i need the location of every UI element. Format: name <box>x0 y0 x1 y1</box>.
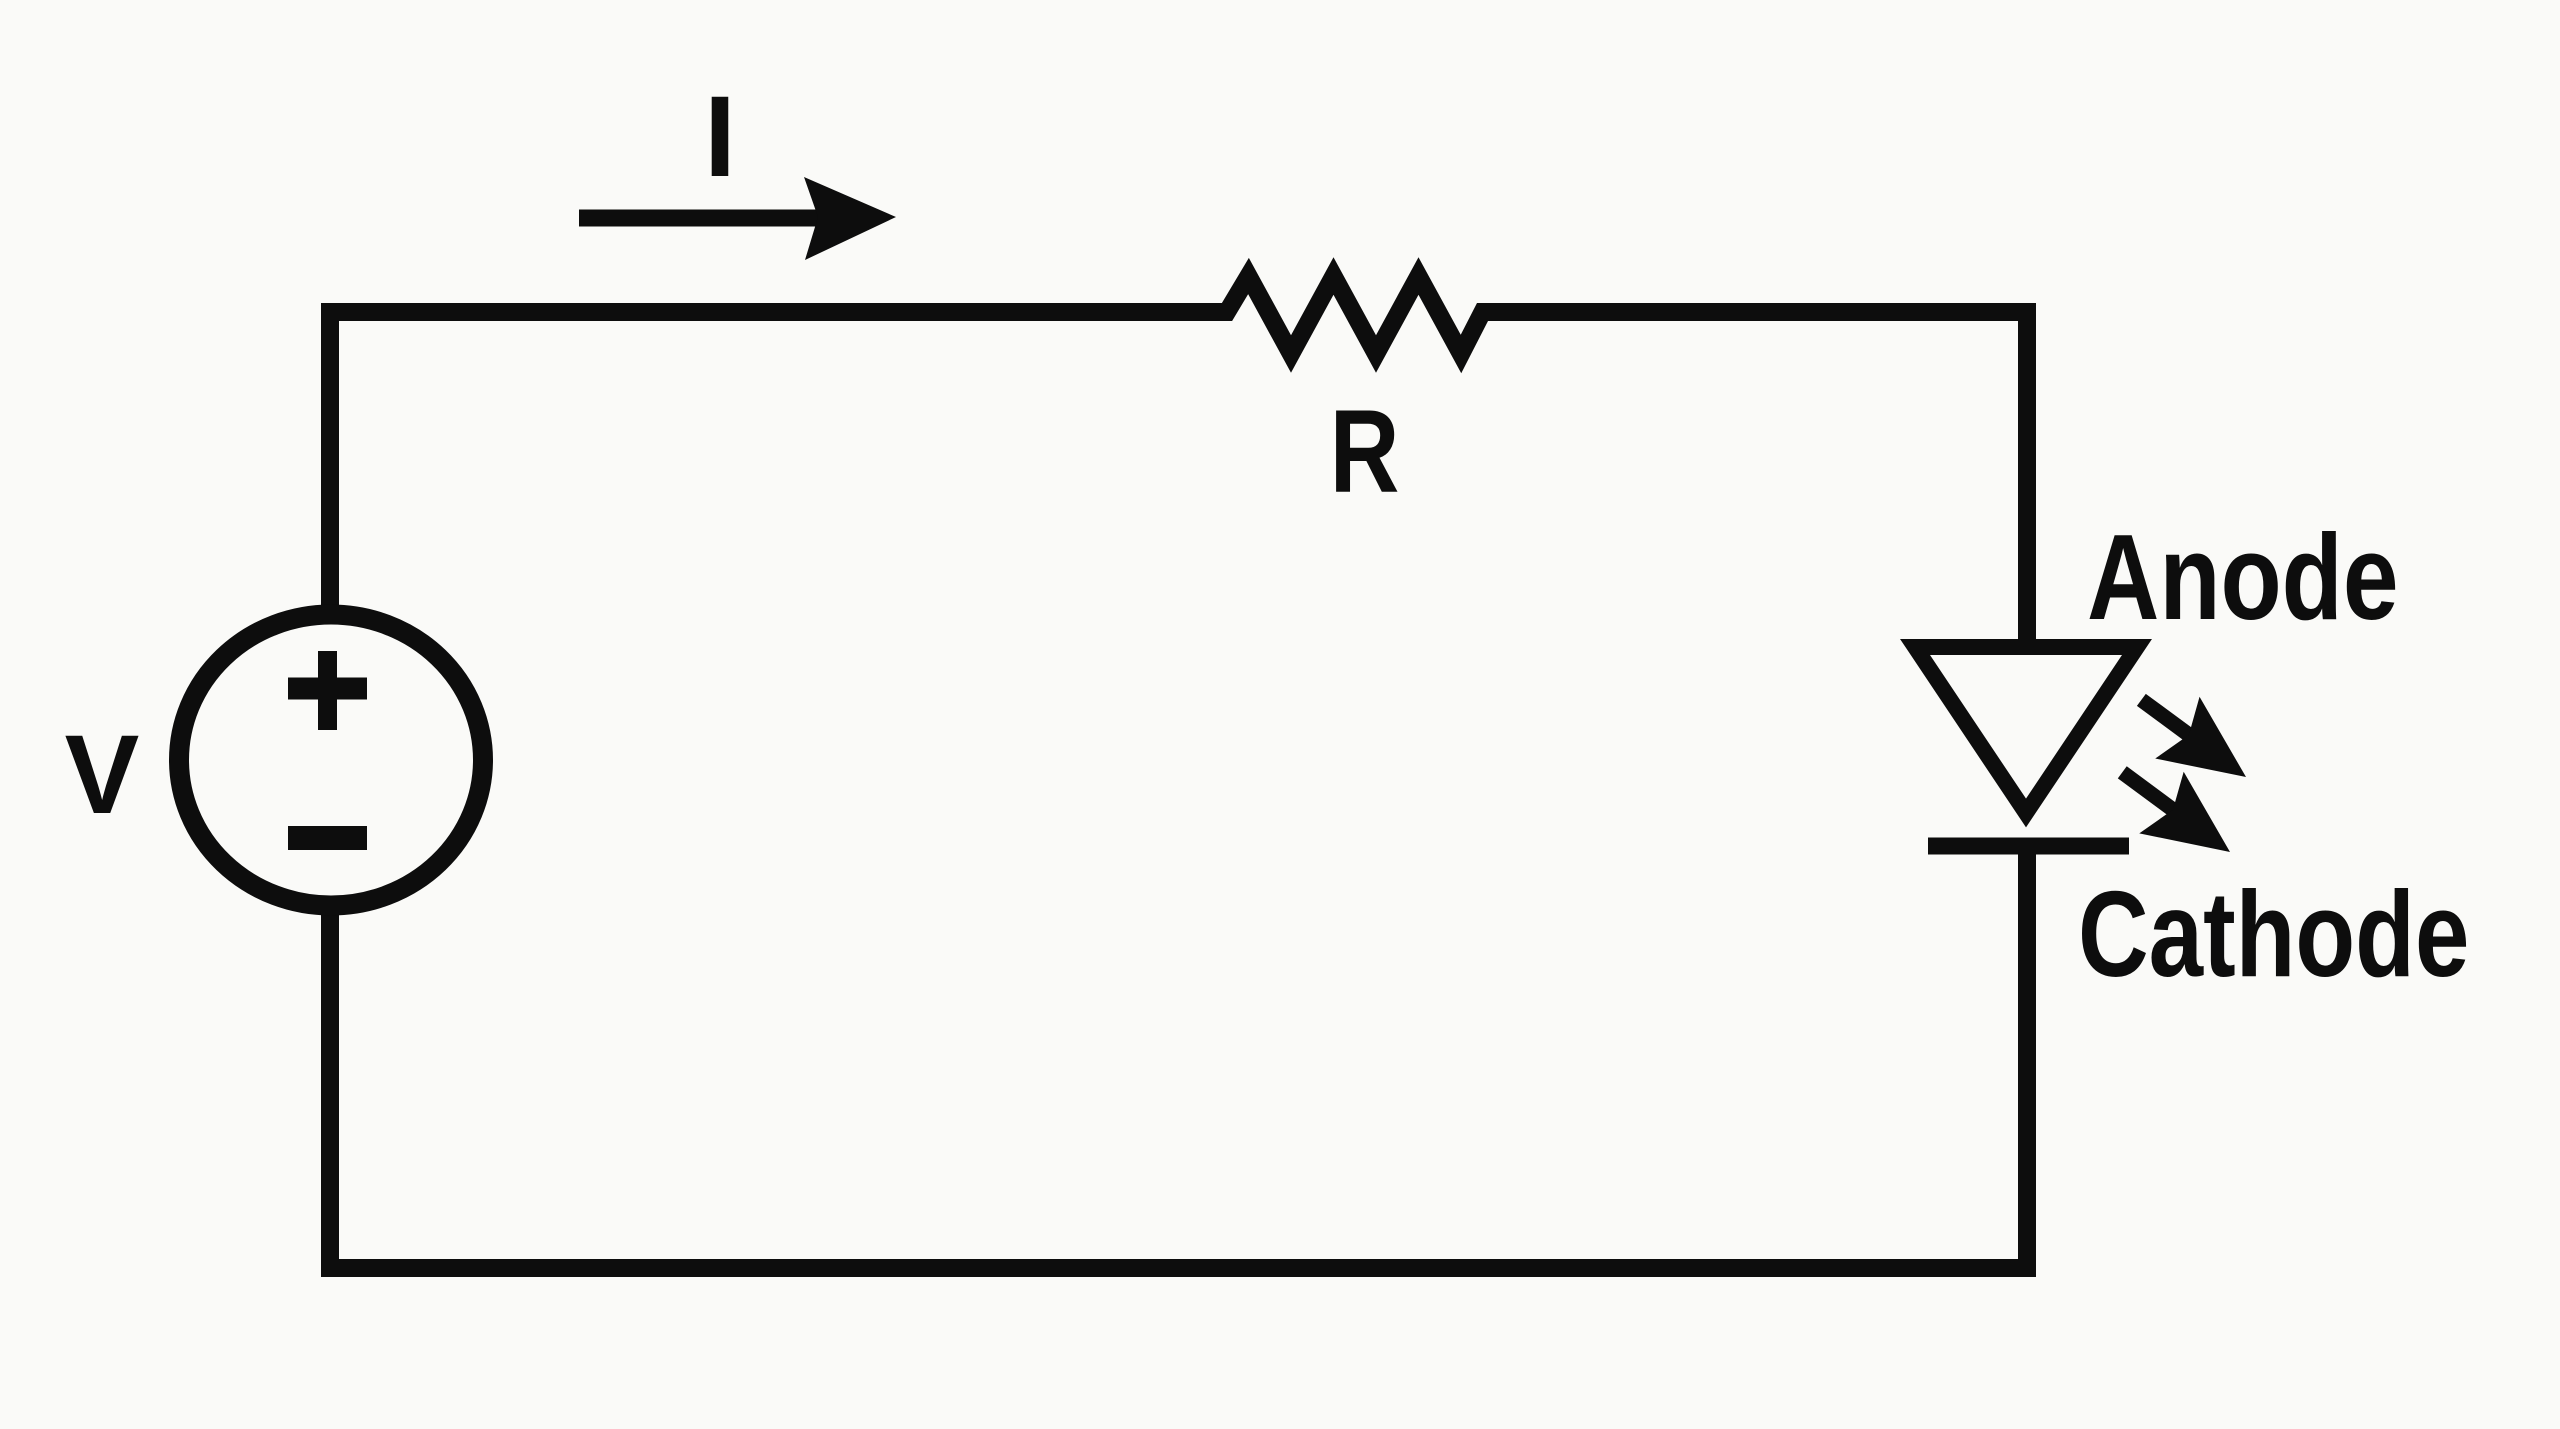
current arrow I (shaft) <box>579 210 825 227</box>
svg-text:R: R <box>1330 385 1400 517</box>
voltage source minus sign <box>288 826 367 850</box>
wire: LED cathode down to bottom-right corner, bottom horizontal, up to V- <box>330 845 2027 1268</box>
resistor R <box>1215 276 1494 354</box>
LED light arrow 2 <box>2099 743 2252 884</box>
voltage source plus sign (horizontal bar) <box>288 678 367 700</box>
current arrow I (head) <box>804 177 896 260</box>
LED D1 (triangle, anode) <box>1915 647 2137 813</box>
svg-text:V: V <box>65 712 140 837</box>
voltage source plus sign (vertical bar) <box>318 651 337 730</box>
wire: left vertical (top) and top-left horizontal to resistor <box>330 312 1228 607</box>
svg-text:Anode: Anode <box>2087 509 2399 646</box>
LED light arrow 1 <box>2118 670 2268 808</box>
LED D1 (cathode bar) <box>1928 838 2129 855</box>
svg-text:Cathode: Cathode <box>2078 867 2469 1003</box>
voltage source V1 (circle) <box>179 615 483 906</box>
wire: resistor to top-right corner down to LED anode <box>1481 312 2027 649</box>
svg-text:I: I <box>704 73 736 201</box>
